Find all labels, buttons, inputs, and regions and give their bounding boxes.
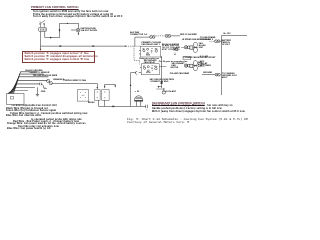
fan label top	[182, 39, 211, 41]
red note box	[22, 51, 95, 63]
svg-text:30: 30	[151, 68, 153, 70]
wire: mid ground wire	[202, 74, 215, 76]
wire: dashed to connector C2	[155, 35, 165, 37]
wire: switch left lead down to red box	[40, 32, 42, 51]
wire: below ignition circle	[78, 32, 80, 35]
label mid wire	[203, 72, 212, 74]
secondary fan bottom text	[170, 73, 189, 75]
connector C5 (harness to fan feed)	[47, 79, 53, 84]
relay R1 box	[139, 46, 161, 57]
arrow near bus bottom	[158, 86, 160, 88]
dial label inside control unit	[12, 100, 19, 103]
text under relays	[139, 58, 159, 60]
bottom-left notes block	[12, 105, 57, 108]
fan motor 2 body	[190, 64, 193, 67]
fan motor body	[190, 46, 193, 49]
fan label bottom	[184, 57, 216, 59]
ground symbol	[36, 87, 39, 96]
pointer arrow under FAN PWR label	[174, 53, 175, 56]
wire: horizontal run to relay 1	[41, 45, 141, 47]
relay R2 title	[144, 60, 157, 64]
harness wire 7	[8, 91, 28, 94]
wire label right top	[180, 34, 197, 36]
wire: branch up from junction to aux connector	[135, 37, 150, 46]
wire: switch right lead	[45, 32, 60, 39]
svg-text:87: 87	[143, 66, 145, 68]
note text under primary title	[33, 11, 108, 14]
connector C3	[215, 40, 220, 43]
connector at rail end	[146, 105, 148, 111]
svg-text:87: 87	[143, 49, 145, 51]
title SECONDARY FAN CONTROL SWITCH	[152, 102, 205, 105]
small box under fan text	[183, 56, 191, 59]
svg-text:85 86: 85 86	[146, 55, 150, 57]
fan label right	[199, 44, 206, 50]
ignition source circle	[72, 28, 80, 32]
note text right of relay R1	[162, 45, 180, 53]
figure caption	[127, 118, 248, 121]
wire: box B lead down to bottom rail	[98, 100, 100, 106]
box B (connector half)	[94, 90, 100, 101]
secondary fan right labels	[198, 63, 205, 69]
relay R1 title	[142, 42, 162, 46]
aux fan connector label	[130, 32, 147, 36]
wire: right bus	[220, 36, 247, 95]
connector C1 (bowtie)	[150, 36, 155, 39]
thermo label	[166, 91, 176, 93]
wire: vertical riser to ignition rail	[59, 23, 61, 37]
bus inline connector	[161, 81, 163, 84]
wire: ignition rail	[60, 23, 79, 29]
key notes mid right	[200, 56, 208, 58]
harness wire 1	[14, 72, 38, 94]
fan motor 2 connector	[184, 64, 190, 67]
motor plus minus	[135, 91, 141, 94]
svg-text:30: 30	[151, 50, 153, 52]
secondary fan bus vertical	[130, 73, 136, 107]
harness wire labels	[26, 70, 43, 72]
harness wire 6	[8, 88, 35, 94]
harness wire 2	[12, 74, 44, 93]
fan 2 blades	[193, 61, 198, 71]
text right of bus	[222, 73, 237, 79]
box C (connector half)	[102, 90, 109, 101]
harness wire 3	[11, 77, 48, 94]
control unit box	[7, 94, 25, 105]
secondary fan left labels	[172, 63, 185, 67]
svg-text:85 86: 85 86	[146, 72, 150, 74]
title PRIMARY FAN CONTROL SWITCH	[31, 6, 79, 9]
thermo sensor	[162, 88, 166, 94]
wire: relay R1 to side bus	[158, 56, 162, 88]
connector C4	[215, 73, 220, 76]
label at right rail	[224, 33, 231, 35]
ground spur line	[156, 88, 165, 90]
svg-text:87a: 87a	[154, 66, 157, 68]
motor M (dome)	[135, 96, 143, 107]
box A (connector block)	[77, 90, 88, 101]
wire label above long harness wire	[64, 80, 86, 82]
switch S1 body	[39, 25, 47, 32]
wire: harness feed to box B	[53, 84, 98, 90]
connector into relay R2	[135, 71, 141, 74]
fan motor connector	[184, 46, 190, 49]
svg-text:87a: 87a	[155, 48, 158, 50]
harness end connector and drops	[40, 83, 44, 89]
wire: relay R2 to fan 2	[159, 66, 166, 68]
harness wire 4	[10, 80, 47, 93]
wire: jumper to box C with stub	[104, 84, 116, 88]
note text under secondary title	[152, 105, 233, 108]
switch S1 terminals	[40, 20, 46, 24]
wire: bottom rail	[99, 105, 146, 107]
harness wire 5	[9, 84, 39, 94]
wire: to label	[171, 36, 215, 41]
small label right pointer	[174, 49, 179, 53]
text right of connector C3	[222, 40, 232, 46]
connector C2	[165, 34, 171, 37]
wire: box C lead down to bottom rail	[103, 100, 105, 106]
relay R2 box	[140, 64, 160, 75]
relay block label	[88, 102, 95, 104]
wire: dashed branch down to relay R2	[134, 46, 140, 64]
fan blades	[193, 42, 198, 52]
wire: stub into fan connector	[181, 46, 184, 48]
ignition feed label (right of circle)	[81, 28, 97, 32]
small marks near bus bottom	[150, 79, 175, 81]
